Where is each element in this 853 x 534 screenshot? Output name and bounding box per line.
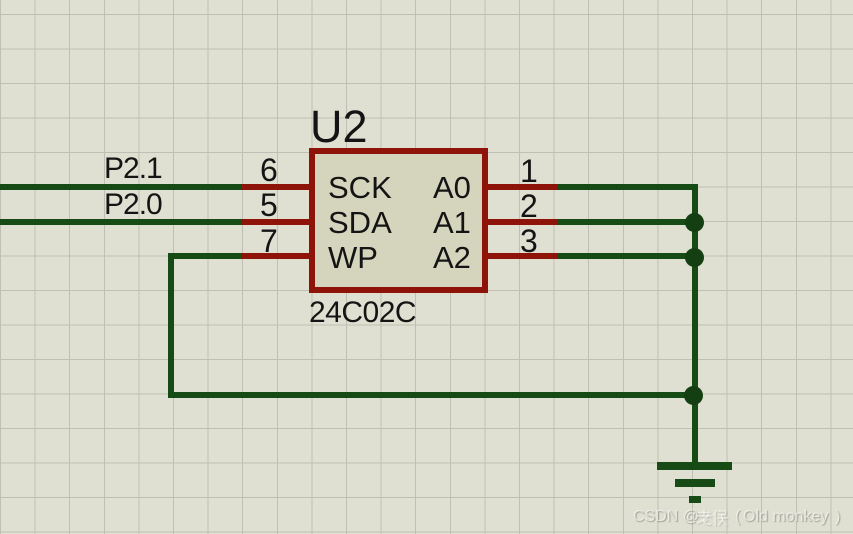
pin 6 stub (SCK) [240,184,310,190]
pin 3 stub (A2) [487,253,559,259]
net label P2.0 [104,190,162,220]
pin name SCK [328,172,392,203]
pin name WP [328,242,378,273]
wire pin 3 horizontal [557,253,698,259]
wire WP left vertical segment [168,253,174,398]
junction dot pin3/trunk [685,248,704,267]
value label 24C02C [309,298,416,328]
pin name A2 [433,242,471,273]
pin number 1 [520,155,538,187]
pin number 3 [520,225,538,257]
watermark CSDN [633,509,699,525]
pin 5 stub (SDA) [240,219,310,225]
pin 1 stub (A0) [487,184,559,190]
wire WP horizontal segment [168,253,242,259]
pin name A0 [433,172,471,203]
wire pin 2 horizontal [557,219,698,225]
ground symbol [0,0,853,1]
junction dot bottom wire/trunk [684,386,703,405]
net label P2.1 [104,154,162,184]
pin name A1 [433,207,471,238]
pin name SDA [328,207,392,238]
wire P2.1 to pin 6 [0,184,242,190]
reference label U2 [310,104,368,149]
pin number 2 [520,190,538,222]
pin number 5 [260,189,278,221]
wire right vertical trunk [692,184,698,466]
IC U2 body [309,148,488,293]
pin number 7 [260,225,278,257]
watermark (Old monkey) [735,509,740,525]
wire bottom horizontal segment [168,392,698,398]
watermark hanzi lao [696,509,712,527]
pin 2 stub (A1) [487,219,559,225]
wire P2.0 to pin 5 [0,219,242,225]
wire pin 1 horizontal [557,184,698,190]
pin number 6 [260,154,278,186]
watermark hanzi hou [712,509,728,527]
pin 7 stub (WP) [240,253,310,259]
junction dot pin2/trunk [685,213,704,232]
